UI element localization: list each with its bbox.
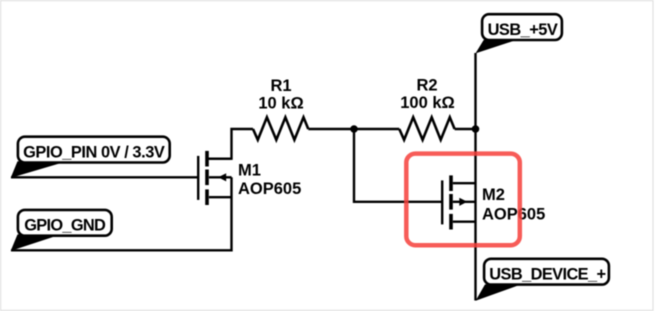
svg-text:R1: R1 [270, 77, 291, 95]
M1 source lead [209, 196, 232, 198]
svg-text:GPIO_PIN 0V / 3.3V: GPIO_PIN 0V / 3.3V [23, 144, 165, 162]
wire: USB_+5V down through junction, M2 drain/body/source, to USB_DEVICE_+ [474, 53, 476, 301]
wire: R1 to R2 [308, 128, 399, 130]
svg-text:100 kΩ: 100 kΩ [400, 94, 455, 112]
svg-text:10 kΩ: 10 kΩ [258, 95, 303, 113]
wire: GPIO_PIN gate lead to M1 [11, 176, 198, 178]
M1 bottom channel bar [205, 189, 209, 205]
M1 gate line [197, 156, 199, 200]
M2 drain lead [453, 182, 476, 184]
wire: M1 body-source down, along bottom to GPIO_GND [11, 177, 232, 250]
M2 body lead with arrow [453, 201, 476, 203]
svg-text:R2: R2 [416, 77, 437, 95]
M2 middle channel bar [449, 194, 453, 210]
svg-text:AOP605: AOP605 [482, 205, 545, 223]
highlight box around M2 [406, 154, 520, 246]
M2 top channel bar [449, 175, 453, 191]
M2 bottom channel bar [449, 214, 453, 230]
node: R1/R2 junction [350, 125, 358, 133]
wire: R2 to +5V vertical [455, 128, 476, 130]
M2 body arrow [459, 198, 467, 206]
node: R2/+5V junction [472, 125, 480, 133]
wire: M1 drain up to R1 [208, 129, 253, 159]
net flag USB_+5V [476, 14, 562, 53]
M1 body lead with arrow [209, 176, 232, 178]
M2 gate line [441, 180, 443, 224]
transistor M1 (NMOS) [198, 151, 231, 205]
transistor M2 (PMOS) [442, 175, 475, 229]
net flag GPIO_PIN 0V / 3.3V [11, 137, 170, 178]
M2 source lead [453, 220, 476, 222]
resistor R1 [253, 117, 308, 140]
svg-text:M2: M2 [482, 186, 505, 204]
M1 top channel bar [205, 151, 209, 167]
M1 body arrow [218, 173, 226, 181]
net flag USB_DEVICE_+ [476, 259, 609, 301]
wire: junction down and over to M2 gate [354, 129, 441, 202]
svg-text:USB_+5V: USB_+5V [488, 21, 558, 39]
M1 drain lead [209, 157, 232, 159]
svg-text:AOP605: AOP605 [238, 180, 301, 198]
svg-text:USB_DEVICE_+: USB_DEVICE_+ [489, 266, 606, 284]
net flag GPIO_GND [11, 210, 112, 251]
M1 middle channel bar [205, 170, 209, 186]
resistor R2 [399, 117, 454, 140]
svg-text:GPIO_GND: GPIO_GND [24, 217, 106, 235]
svg-text:M1: M1 [238, 161, 261, 179]
